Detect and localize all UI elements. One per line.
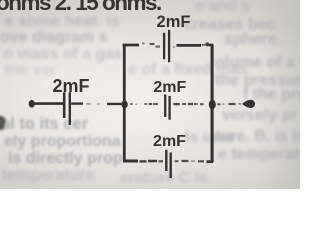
svg-text:2mF: 2mF xyxy=(157,13,191,31)
faint show-through text layer xyxy=(0,0,300,189)
right terminal plug xyxy=(242,100,255,108)
svg-text:2mF: 2mF xyxy=(52,76,89,96)
wire node B to right terminal (dashed) xyxy=(217,103,220,105)
wire top-left branch xyxy=(123,44,139,47)
wire C3 to node B (dashed faded) xyxy=(174,103,180,105)
node B junction dot xyxy=(209,100,216,110)
dark smudge left edge xyxy=(0,115,7,131)
wire left vertical of parallel loop xyxy=(123,45,126,161)
left terminal node xyxy=(29,100,35,108)
capacitor C4 value 2mF (bottom) xyxy=(165,150,167,171)
svg-text:2mF: 2mF xyxy=(153,133,186,150)
wire bottom-left branch (chunky dashes) xyxy=(123,160,138,163)
wire C1 to node A xyxy=(71,102,83,104)
wire left terminal to C1 xyxy=(35,102,64,105)
circuit schematic xyxy=(0,0,300,189)
wire bottom-right branch (dashes) xyxy=(175,160,179,162)
wire top-right branch xyxy=(173,46,175,48)
capacitor C3 value 2mF (middle) xyxy=(164,95,166,118)
top cropped dark text line xyxy=(0,0,161,16)
wire node A to C3 (dashed faded) xyxy=(130,103,133,105)
capacitor C2 value 2mF (top) xyxy=(163,33,165,60)
svg-text:2mF: 2mF xyxy=(153,79,186,96)
capacitor C1 value 2mF xyxy=(63,92,66,118)
node A junction dot xyxy=(121,101,127,109)
wire right vertical of parallel loop xyxy=(211,45,214,162)
